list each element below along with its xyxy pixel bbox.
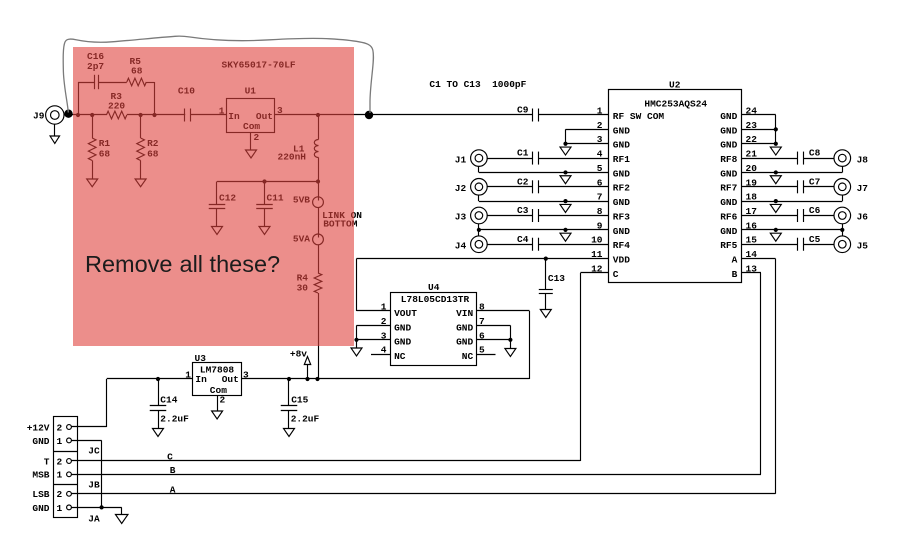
svg-text:C4: C4 bbox=[517, 234, 529, 245]
svg-text:+8v: +8v bbox=[290, 349, 307, 360]
svg-text:C8: C8 bbox=[809, 148, 821, 159]
svg-text:all these?: all these? bbox=[180, 251, 281, 277]
svg-text:HMC253AQS24: HMC253AQS24 bbox=[644, 98, 707, 109]
svg-text:C13: C13 bbox=[548, 273, 565, 284]
svg-text:GND: GND bbox=[720, 197, 737, 208]
svg-text:VIN: VIN bbox=[456, 308, 473, 319]
svg-text:NC: NC bbox=[462, 351, 474, 362]
svg-text:GND: GND bbox=[720, 140, 737, 151]
svg-text:J9: J9 bbox=[33, 111, 45, 122]
svg-text:GND: GND bbox=[32, 503, 49, 514]
svg-text:C1 TO C13 1000pF: C1 TO C13 1000pF bbox=[429, 79, 526, 90]
svg-text:2: 2 bbox=[57, 422, 63, 433]
svg-text:1: 1 bbox=[57, 503, 63, 514]
svg-text:GND: GND bbox=[394, 322, 411, 333]
svg-text:RF4: RF4 bbox=[613, 240, 630, 251]
svg-text:JA: JA bbox=[88, 513, 100, 524]
svg-text:C6: C6 bbox=[809, 205, 821, 216]
svg-text:L78L05CD13TR: L78L05CD13TR bbox=[401, 294, 470, 305]
svg-text:GND: GND bbox=[720, 111, 737, 122]
svg-text:C: C bbox=[167, 452, 173, 463]
svg-text:2: 2 bbox=[57, 489, 63, 500]
svg-text:U4: U4 bbox=[428, 282, 440, 293]
svg-text:C: C bbox=[613, 269, 619, 280]
svg-text:C3: C3 bbox=[517, 205, 529, 216]
svg-text:JB: JB bbox=[88, 479, 100, 490]
svg-text:GND: GND bbox=[720, 125, 737, 136]
svg-text:J5: J5 bbox=[857, 240, 869, 251]
svg-text:T: T bbox=[44, 456, 50, 467]
svg-text:A: A bbox=[732, 255, 738, 266]
svg-text:GND: GND bbox=[613, 226, 630, 237]
svg-text:8: 8 bbox=[479, 302, 485, 313]
svg-text:2.2uF: 2.2uF bbox=[291, 414, 320, 425]
svg-text:RF7: RF7 bbox=[720, 183, 737, 194]
svg-text:RF6: RF6 bbox=[720, 211, 737, 222]
svg-text:RF SW COM: RF SW COM bbox=[613, 111, 665, 122]
svg-text:Out: Out bbox=[222, 374, 239, 385]
svg-text:J2: J2 bbox=[455, 183, 467, 194]
svg-text:J6: J6 bbox=[857, 212, 869, 223]
svg-text:C14: C14 bbox=[160, 395, 177, 406]
svg-text:2: 2 bbox=[57, 456, 63, 467]
svg-text:U2: U2 bbox=[669, 79, 681, 90]
svg-text:C2: C2 bbox=[517, 176, 529, 187]
svg-text:VOUT: VOUT bbox=[394, 308, 417, 319]
svg-text:GND: GND bbox=[456, 322, 473, 333]
svg-text:J3: J3 bbox=[455, 212, 467, 223]
svg-text:C5: C5 bbox=[809, 234, 821, 245]
svg-text:A: A bbox=[170, 484, 176, 495]
svg-text:LSB: LSB bbox=[32, 489, 49, 500]
svg-text:J1: J1 bbox=[455, 154, 467, 165]
svg-text:U3: U3 bbox=[195, 353, 207, 364]
svg-text:J7: J7 bbox=[857, 183, 869, 194]
svg-text:C7: C7 bbox=[809, 176, 821, 187]
svg-text:GND: GND bbox=[613, 125, 630, 136]
svg-text:J8: J8 bbox=[857, 154, 869, 165]
svg-text:B: B bbox=[170, 465, 176, 476]
svg-text:1: 1 bbox=[185, 369, 191, 380]
svg-text:2: 2 bbox=[220, 395, 226, 406]
svg-text:2.2uF: 2.2uF bbox=[160, 414, 189, 425]
svg-text:C9: C9 bbox=[517, 104, 529, 115]
svg-text:C15: C15 bbox=[291, 395, 308, 406]
svg-text:GND: GND bbox=[720, 226, 737, 237]
svg-text:GND: GND bbox=[613, 168, 630, 179]
svg-text:In: In bbox=[195, 374, 207, 385]
svg-text:RF2: RF2 bbox=[613, 183, 630, 194]
svg-text:GND: GND bbox=[613, 140, 630, 151]
svg-text:GND: GND bbox=[456, 337, 473, 348]
svg-text:+12V: +12V bbox=[27, 422, 50, 433]
svg-text:NC: NC bbox=[394, 351, 406, 362]
svg-text:Remove: Remove bbox=[85, 251, 173, 277]
svg-text:JC: JC bbox=[88, 445, 100, 456]
svg-text:RF1: RF1 bbox=[613, 154, 630, 165]
svg-text:RF5: RF5 bbox=[720, 240, 737, 251]
svg-text:GND: GND bbox=[32, 436, 49, 447]
svg-text:C1: C1 bbox=[517, 148, 529, 159]
svg-text:GND: GND bbox=[613, 197, 630, 208]
svg-text:B: B bbox=[732, 269, 738, 280]
svg-text:GND: GND bbox=[720, 168, 737, 179]
svg-text:RF8: RF8 bbox=[720, 154, 737, 165]
svg-text:RF3: RF3 bbox=[613, 211, 630, 222]
svg-text:GND: GND bbox=[394, 337, 411, 348]
svg-text:1: 1 bbox=[57, 436, 63, 447]
svg-text:J4: J4 bbox=[455, 240, 467, 251]
svg-text:1: 1 bbox=[57, 470, 63, 481]
svg-text:MSB: MSB bbox=[32, 470, 49, 481]
svg-text:VDD: VDD bbox=[613, 255, 630, 266]
